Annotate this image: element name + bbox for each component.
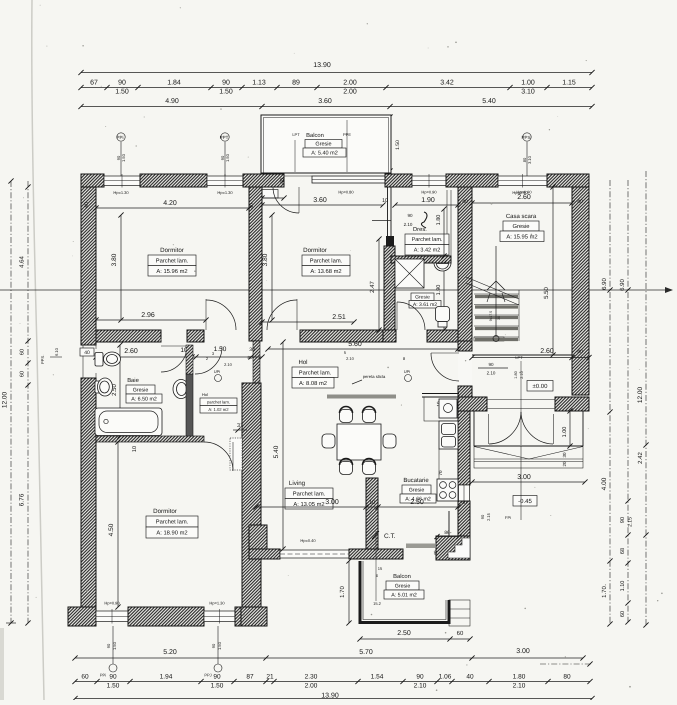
- stair grey treads shading: [475, 297, 518, 340]
- svg-text:PPS: PPS: [521, 135, 530, 140]
- label box Gresie bucatarie: [402, 485, 431, 494]
- kitchen counter top: [424, 397, 458, 421]
- svg-text:1.50: 1.50: [214, 346, 227, 353]
- svg-text:3.10: 3.10: [527, 155, 532, 164]
- svg-text:80: 80: [247, 355, 253, 360]
- svg-text:15: 15: [378, 566, 383, 571]
- svg-text:Dormitor: Dormitor: [160, 247, 184, 254]
- svg-text:1.50: 1.50: [211, 683, 224, 690]
- kitchen east wall lower: [458, 501, 470, 549]
- label box area 5.01: [384, 590, 424, 599]
- left small marker PPS: [40, 347, 62, 364]
- svg-text:40: 40: [433, 550, 438, 556]
- living south window Hp=0.40: [280, 550, 349, 558]
- svg-text:Hp=1.30: Hp=1.30: [209, 601, 225, 606]
- balcony axis LPT line: [294, 140, 296, 172]
- svg-text:2.00: 2.00: [343, 89, 357, 96]
- svg-text:1.50: 1.50: [225, 153, 230, 162]
- boxed 40 left baie: [80, 348, 94, 356]
- stair treads: [474, 290, 519, 341]
- svg-text:90: 90: [213, 674, 221, 681]
- svg-text:Dormitor: Dormitor: [153, 508, 177, 515]
- label box area 3.61: [409, 301, 441, 309]
- CT boiler: [372, 531, 396, 540]
- svg-text:3.60: 3.60: [318, 98, 332, 105]
- dorm3 window axes below: [106, 626, 117, 672]
- dim 3.80 dorm1 vertical: [118, 212, 123, 322]
- svg-text:6.90: 6.90: [601, 278, 608, 290]
- label box Parchet lam living: [285, 488, 333, 499]
- svg-text:A: 3.42 m2: A: 3.42 m2: [414, 248, 441, 254]
- label box Parchet lam dres: [405, 234, 449, 245]
- svg-text:Parchet lam.: Parchet lam.: [310, 257, 343, 264]
- svg-text:1.50: 1.50: [115, 89, 129, 96]
- svg-text:PPi: PPi: [100, 673, 106, 678]
- mid wall under baie2 east bit: [427, 330, 458, 342]
- svg-text:1.00: 1.00: [521, 80, 535, 87]
- label box area 5.40: [303, 148, 346, 157]
- label box area 4.66: [400, 494, 436, 503]
- dim 2.50 vertical baie1: [117, 342, 122, 438]
- label box area 8.08: [292, 378, 334, 389]
- svg-text:13.90: 13.90: [313, 62, 331, 69]
- kitchen sink double: [439, 421, 458, 449]
- dim 1.90 vertical baie2: [441, 260, 446, 332]
- kitchen counter mid line: [438, 449, 440, 479]
- svg-text:3.80: 3.80: [111, 253, 118, 266]
- svg-text:40: 40: [466, 674, 474, 681]
- right dim line 3 12.00/2.42: [643, 171, 648, 628]
- label box Gresie balcon: [386, 581, 419, 590]
- svg-text:PPT: PPT: [220, 135, 229, 140]
- door arc baie1: [161, 346, 187, 372]
- svg-text:Casa scara: Casa scara: [506, 213, 537, 220]
- top wall pier 54: [243, 174, 284, 187]
- door arc dorm1: [206, 299, 236, 330]
- svg-text:Parchet lam.: Parchet lam.: [299, 369, 332, 376]
- dim 2.51 dorm2: [259, 319, 356, 324]
- bottom wall middle segment: [128, 607, 204, 626]
- dim 30/20 steps: [562, 452, 567, 467]
- svg-text:1.70: 1.70: [339, 586, 346, 598]
- svg-text:3.42: 3.42: [440, 80, 454, 87]
- svg-text:Hol: Hol: [298, 359, 307, 366]
- svg-text:6.10: 6.10: [54, 347, 59, 356]
- dim ticks 54: [255, 195, 287, 200]
- svg-text:2.10: 2.10: [414, 683, 427, 690]
- svg-text:Gresie: Gresie: [395, 583, 411, 589]
- chair: [340, 407, 353, 423]
- door label 90/2.10 casa entrance: [478, 362, 508, 376]
- svg-text:pereta sticla: pereta sticla: [363, 374, 386, 379]
- living SW corner block upper: [249, 525, 267, 549]
- balcony axis line: [375, 531, 377, 601]
- svg-text:40: 40: [462, 199, 468, 205]
- baie1 east wall upper: [186, 345, 193, 374]
- axis line 1.50 right of balcony: [387, 114, 401, 173]
- bottom-right corner pier dorm3: [241, 607, 267, 626]
- svg-text:5.20: 5.20: [163, 649, 177, 656]
- dim 4.20 dorm1: [93, 205, 251, 210]
- level marker -0.45: [513, 496, 537, 507]
- svg-text:30: 30: [497, 316, 501, 320]
- svg-text:A: 3.61 m2: A: 3.61 m2: [413, 302, 437, 308]
- svg-text:1.00: 1.00: [562, 427, 568, 438]
- marker UPi: [404, 369, 412, 382]
- svg-text:1.50: 1.50: [107, 683, 120, 690]
- svg-text:A: 18.90 m2: A: 18.90 m2: [156, 530, 187, 537]
- dim 2.60 casa scara: [469, 200, 574, 205]
- shower baie2: [395, 259, 424, 288]
- svg-text:A: 8.08 m2: A: 8.08 m2: [299, 380, 327, 387]
- svg-text:Balcon: Balcon: [306, 132, 324, 139]
- corner steps white cutout: [448, 538, 470, 558]
- svg-text:A: 5.40 m2: A: 5.40 m2: [311, 150, 338, 156]
- svg-text:1.50: 1.50: [395, 140, 401, 150]
- chair left: [322, 434, 335, 448]
- svg-text:1.15: 1.15: [562, 80, 576, 87]
- svg-text:Gresie: Gresie: [415, 295, 430, 301]
- kitchen north partition: [422, 394, 459, 409]
- svg-text:Gresie: Gresie: [133, 387, 149, 393]
- svg-text:parchet lam.: parchet lam.: [207, 399, 230, 404]
- entry steps triangles: [474, 446, 583, 468]
- svg-text:1.06: 1.06: [439, 674, 452, 681]
- double entry door arcs: [489, 411, 554, 445]
- svg-text:1.50: 1.50: [112, 641, 117, 650]
- vestibule south wall west: [458, 397, 487, 411]
- svg-text:30: 30: [249, 347, 255, 353]
- window dorm3 west Hp=0.90: [96, 609, 128, 624]
- svg-text:Parchet lam.: Parchet lam.: [156, 257, 189, 264]
- svg-text:40: 40: [577, 349, 583, 355]
- svg-text:1.50: 1.50: [121, 153, 126, 162]
- svg-text:PPJ: PPJ: [204, 673, 211, 678]
- label box Parchet lam dorm3: [146, 516, 198, 527]
- window axis PPT: [220, 133, 230, 176]
- stair break diagonal lines: [466, 277, 519, 305]
- dim 2.60/40 casa bottom: [469, 355, 591, 360]
- svg-text:2.10: 2.10: [346, 356, 355, 361]
- mid wall under dorm2: [300, 330, 383, 342]
- svg-text:3.10: 3.10: [521, 89, 535, 96]
- svg-text:10: 10: [382, 198, 388, 204]
- svg-text:Gresie: Gresie: [409, 487, 425, 493]
- svg-text:A: 15.96 m2: A: 15.96 m2: [156, 268, 187, 275]
- door arc baie2: [397, 302, 425, 330]
- dim 2.47 vertical baie2/dorm2: [376, 236, 381, 332]
- kitchen east wall top bit: [458, 386, 472, 397]
- balcony bottom inner line: [363, 561, 446, 620]
- svg-text:1.84: 1.84: [167, 80, 181, 87]
- mini hall label boxes: [200, 398, 237, 406]
- svg-text:6.76: 6.76: [19, 493, 26, 506]
- svg-text:Parchet lam.: Parchet lam.: [156, 519, 189, 526]
- svg-text:Gresie: Gresie: [315, 142, 331, 148]
- svg-text:5.40: 5.40: [273, 445, 280, 458]
- baie1 east wall dark: [186, 374, 193, 436]
- chair right: [383, 434, 396, 448]
- door label 90/2.10 dres: [372, 213, 413, 227]
- svg-text:A: 1.02 m2: A: 1.02 m2: [208, 407, 229, 412]
- svg-text:Gresie: Gresie: [512, 223, 529, 230]
- label box area 15.96: [148, 266, 196, 277]
- washbasin baie1: [173, 380, 189, 399]
- svg-text:2.10: 2.10: [487, 371, 496, 376]
- svg-text:40: 40: [461, 500, 467, 506]
- svg-text:87: 87: [246, 674, 254, 681]
- dres west jamb block: [386, 236, 394, 246]
- svg-text:A: 5.01 m2: A: 5.01 m2: [391, 592, 417, 598]
- svg-text:90: 90: [407, 213, 413, 218]
- svg-text:1.80: 1.80: [514, 371, 518, 378]
- level marker +-0.00: [527, 381, 553, 392]
- kitchen east window: [459, 485, 470, 501]
- dim 5.60 hol: [265, 346, 460, 351]
- dres east duct lines: [447, 190, 451, 256]
- label box Parchet lam dorm1: [148, 255, 196, 266]
- svg-text:90: 90: [488, 362, 494, 367]
- svg-text:90: 90: [416, 674, 424, 681]
- stair axis with arrow: [487, 246, 505, 342]
- dim 1.70 balcony left: [346, 558, 351, 625]
- dim line bottom detail: [72, 679, 592, 684]
- svg-text:60: 60: [20, 349, 26, 355]
- dim 3.60 dorm2: [259, 202, 385, 207]
- door arc apartment entrance: [431, 353, 459, 381]
- marker UPi: [214, 369, 222, 382]
- balcony top outline: [261, 115, 391, 173]
- svg-text:30: 30: [562, 452, 567, 458]
- svg-text:40: 40: [280, 178, 286, 184]
- svg-text:1.94: 1.94: [160, 674, 173, 681]
- dim 4.50 vertical dorm3: [115, 439, 120, 609]
- window dorm1 east Hp=1.30: [207, 174, 243, 188]
- dim 5.50 vertical casa scara: [550, 184, 555, 357]
- svg-text:A: 13.68 m2: A: 13.68 m2: [310, 268, 341, 275]
- window dres Hp=0.90: [412, 174, 446, 188]
- casa scara east wall: [572, 187, 589, 395]
- svg-text:40: 40: [84, 202, 90, 208]
- svg-text:10: 10: [132, 446, 138, 452]
- dres west partition thin: [388, 187, 392, 236]
- mid wall under baie2 west bit: [383, 330, 396, 342]
- svg-text:2.10: 2.10: [513, 683, 526, 690]
- svg-text:2.10: 2.10: [404, 222, 413, 227]
- door arc balcony top dorm2: [273, 187, 299, 213]
- window casa scara Hp=0.90: [498, 174, 547, 188]
- svg-text:1.13: 1.13: [252, 80, 266, 87]
- svg-text:90: 90: [620, 517, 626, 523]
- svg-text:1.70: 1.70: [601, 586, 608, 598]
- living south wall mid segment: [349, 549, 403, 559]
- svg-text:67: 67: [90, 80, 98, 87]
- svg-text:UPi: UPi: [404, 369, 411, 374]
- svg-text:2.51: 2.51: [332, 314, 346, 321]
- svg-text:5.50: 5.50: [543, 287, 550, 299]
- section cut line A-A horizontal: [0, 287, 673, 293]
- thin wall under bathtub: [96, 436, 204, 442]
- entrance door opening in casa scara west wall: [458, 351, 472, 386]
- svg-text:4.20: 4.20: [163, 200, 177, 207]
- svg-text:Hp=0.80: Hp=0.80: [338, 190, 354, 195]
- double door sill lines: [487, 400, 555, 409]
- svg-text:A: 15.95 m2: A: 15.95 m2: [506, 233, 537, 240]
- porch axis labels: [480, 512, 511, 521]
- label box Gresie baie1: [126, 385, 155, 394]
- svg-text:PPi: PPi: [116, 135, 123, 140]
- casa scara west wall bit: [458, 341, 472, 351]
- left wall upper: [81, 187, 96, 345]
- dim 2.96 dorm1: [93, 317, 208, 322]
- svg-text:2.50: 2.50: [397, 630, 411, 637]
- window dorm1 west Hp=1.30: [104, 174, 140, 188]
- toilet WC baie2: [436, 307, 450, 328]
- svg-text:LPT: LPT: [292, 132, 300, 137]
- left edge scan shading: [0, 628, 4, 700]
- svg-text:90: 90: [211, 643, 216, 648]
- dining table: [337, 424, 381, 460]
- vestibule south wall east: [555, 397, 589, 411]
- wall dres/baie2 divider: [391, 256, 451, 263]
- svg-text:6.90: 6.90: [619, 279, 626, 291]
- svg-text:1.80: 1.80: [436, 215, 442, 226]
- svg-text:1.54: 1.54: [371, 674, 384, 681]
- svg-text:Bucatarie: Bucatarie: [403, 477, 429, 484]
- dim line top detail: [78, 85, 594, 90]
- dim line total 13.90: [78, 70, 594, 75]
- hol door axis marks small: [206, 350, 406, 361]
- svg-text:5.40: 5.40: [482, 98, 496, 105]
- label box Gresie balcony top: [305, 140, 342, 149]
- svg-text:10: 10: [369, 500, 375, 506]
- dim 3.80 dorm2 vertical: [269, 212, 274, 322]
- svg-text:3.60: 3.60: [313, 197, 327, 204]
- svg-text:90: 90: [109, 674, 117, 681]
- svg-text:Hp=1.30: Hp=1.30: [113, 190, 129, 195]
- label box area 15.95: [500, 231, 544, 242]
- bottom-left corner pier: [68, 607, 96, 626]
- tick 31: [233, 427, 247, 432]
- svg-text:21: 21: [266, 674, 274, 681]
- label box Gresie casa scara: [503, 221, 539, 231]
- svg-text:Baie: Baie: [127, 377, 139, 384]
- label box Parchet lam hol: [292, 367, 338, 378]
- window axis PPi: [116, 133, 126, 176]
- balcony steps SE: [449, 600, 470, 626]
- chair: [363, 459, 376, 475]
- balcony door sill grey: [406, 544, 435, 549]
- svg-text:3.00: 3.00: [325, 499, 339, 506]
- svg-text:40: 40: [84, 350, 90, 356]
- svg-text:2.15: 2.15: [628, 517, 634, 527]
- svg-text:80: 80: [563, 674, 571, 681]
- svg-text:Hp=0.90: Hp=0.90: [512, 190, 528, 195]
- glass partition shelf: [327, 395, 396, 399]
- balcony bottom walls thick: [360, 561, 449, 623]
- svg-text:2.00: 2.00: [305, 683, 318, 690]
- svg-text:Hol: Hol: [202, 392, 208, 397]
- svg-text:A: 6.50 m2: A: 6.50 m2: [131, 396, 157, 402]
- central wall lower (dorm3 east): [242, 383, 261, 607]
- casa scara landing edge line: [472, 354, 572, 356]
- svg-text:UPi: UPi: [214, 369, 221, 374]
- door jamb pier 31 white: [230, 438, 242, 470]
- door arc mini hall opening: [195, 347, 222, 374]
- svg-text:9x17.5: 9x17.5: [489, 311, 493, 322]
- label box area 6.50: [126, 394, 162, 403]
- svg-text:3.80: 3.80: [262, 253, 269, 266]
- svg-text:4.50: 4.50: [108, 523, 115, 536]
- top wall segment east of balcony: [385, 174, 412, 187]
- balcony window sill band: [312, 176, 385, 183]
- mid wall segment at bath door: [187, 330, 204, 342]
- CT partition line: [448, 511, 450, 537]
- chair: [340, 459, 353, 475]
- balcony axis PPE line: [346, 120, 348, 172]
- svg-text:Hp=0.40: Hp=0.40: [300, 538, 316, 543]
- kitchen SW corner block: [436, 536, 470, 560]
- svg-text:-0.45: -0.45: [518, 498, 532, 505]
- svg-text:Balcon: Balcon: [393, 573, 411, 580]
- svg-text:PPS: PPS: [40, 356, 45, 364]
- svg-text:60: 60: [620, 611, 626, 617]
- dim 1.00 porch: [567, 408, 572, 448]
- top wall segment west corner: [81, 174, 104, 187]
- fridge: [439, 399, 457, 418]
- bottom-right short dash line: [540, 661, 593, 666]
- toilet WC baie1: [95, 352, 121, 366]
- svg-text:20: 20: [562, 461, 567, 467]
- axis marker casa scara door: [514, 355, 524, 411]
- svg-text:1.50: 1.50: [219, 89, 233, 96]
- svg-text:4.64: 4.64: [19, 256, 26, 268]
- central wall thin connector: [253, 341, 260, 383]
- svg-text:FPi: FPi: [505, 515, 511, 520]
- right dim line 6.90/4.00/1.70: [607, 180, 612, 627]
- casa scara west wall: [458, 187, 472, 341]
- dim 1.80 vertical dres: [441, 206, 446, 258]
- svg-text:40: 40: [577, 199, 583, 205]
- dim line 4.90/3.60/5.40: [78, 104, 594, 109]
- dim 86 CT: [434, 530, 461, 539]
- svg-text:90: 90: [118, 80, 126, 87]
- dim 5.40 vertical hol: [280, 339, 285, 551]
- svg-text:86: 86: [444, 530, 450, 536]
- bottom wall east bit: [235, 607, 241, 626]
- central wall upper (dorm1/dorm2): [249, 187, 262, 341]
- svg-text:4.00: 4.00: [601, 477, 608, 490]
- left dim line 4.64/60/60/6.76: [25, 181, 30, 626]
- label box Parchet lam dorm2: [302, 255, 350, 266]
- label box area 3.42: [405, 245, 449, 256]
- svg-text:Parchet lam.: Parchet lam.: [293, 490, 326, 497]
- label box Gresie baie2: [411, 293, 434, 301]
- svg-text:12.00: 12.00: [637, 386, 644, 403]
- svg-text:2.60: 2.60: [124, 348, 138, 355]
- svg-text:90: 90: [480, 514, 485, 519]
- dim 1.90 dres: [392, 202, 460, 207]
- label box area 13.68: [302, 266, 350, 277]
- right dim line 2 6.90/90/68/1.10/60: [625, 180, 630, 625]
- svg-text:2.10: 2.10: [224, 362, 233, 367]
- svg-text:5.60: 5.60: [348, 341, 362, 348]
- top wall segment to stair window: [446, 174, 498, 187]
- svg-text:90: 90: [106, 643, 111, 648]
- porch axis line: [520, 446, 522, 520]
- svg-text:5.70: 5.70: [359, 649, 373, 656]
- svg-text:70: 70: [438, 470, 443, 476]
